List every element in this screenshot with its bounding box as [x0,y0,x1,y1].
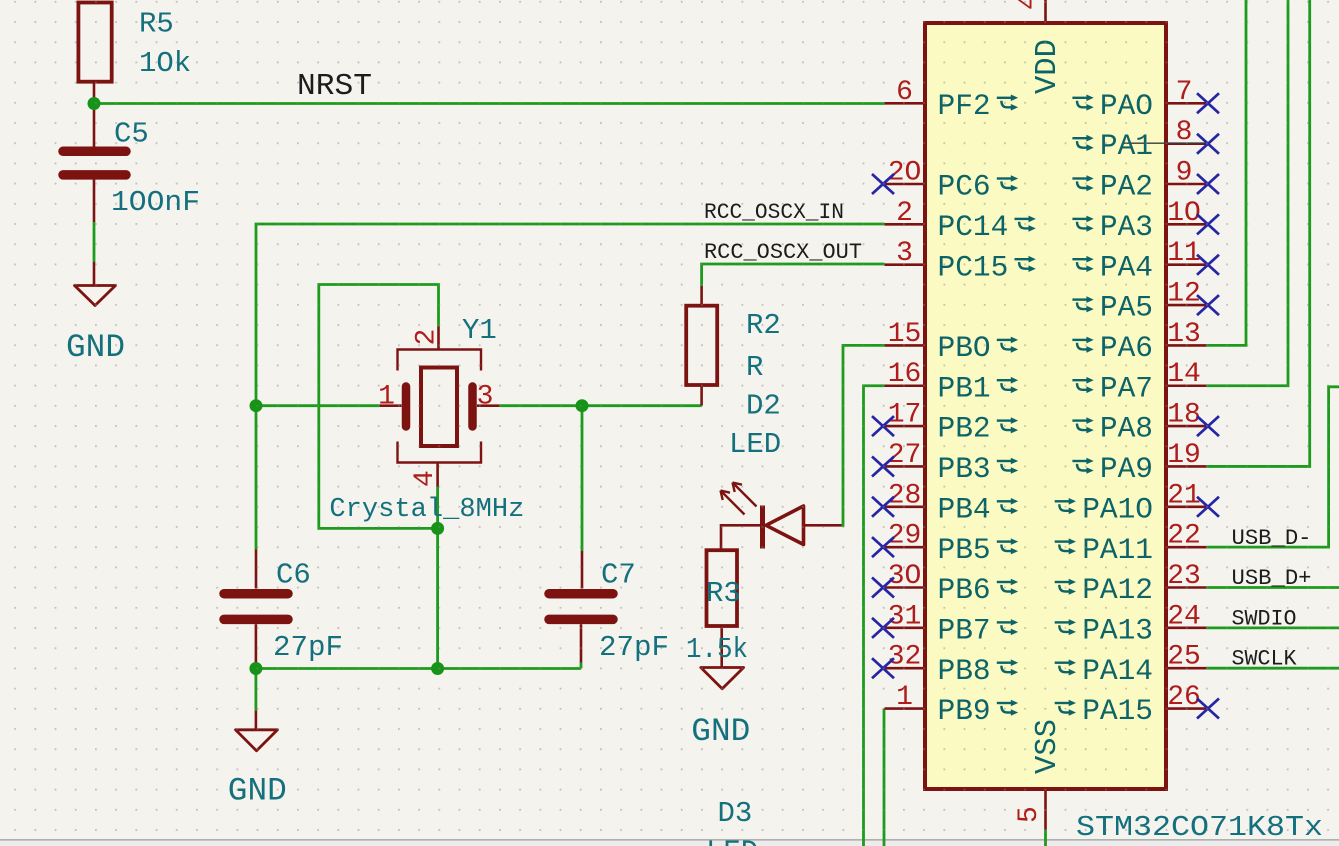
label USB_D- [1232,526,1312,551]
wire SWCLK net [1207,667,1339,670]
junction crystal pin3 / OSC_OUT [576,399,589,412]
wire C7 bottom to rail [580,663,583,669]
U1 pin 16 PB1 (left) [885,359,1019,405]
U1 pin 20 PC6 (left) [872,158,1018,204]
U1 pin 6 PF2 (left) [885,77,1019,123]
U1 pin 19 PA9 (right) [1072,440,1206,486]
label USB_D+ [1232,566,1312,591]
label RCC_OSCX_OUT [704,240,862,265]
Y1 reference label [462,314,497,347]
R3 reference label [706,577,741,610]
junction C6 bottom [249,662,262,675]
R5 reference label [139,8,174,41]
U1 pin 31 PB7 (left) [872,601,1018,647]
U1 pin 29 PB5 (left) [872,521,1018,567]
D3 value LED (cut off) [706,836,758,846]
U1 pin 4 VDD (top) [1014,0,1065,94]
U1 pin 10 PA3 (right) [1072,198,1219,244]
D3 reference label (cut off) [718,797,753,830]
R2 reference label [746,309,781,342]
capacitor C5 [63,151,126,222]
U1 pin 7 PA0 (right) [1072,77,1219,123]
U1 pin 26 PA15 (right) [1055,682,1219,728]
U1 pin 22 PA11 (right) [1055,521,1207,567]
U1 pin 32 PB8 (left) [872,642,1018,688]
U1 pin 13 PA6 (right) [1072,319,1206,365]
wire PA6 up [1207,0,1247,345]
resistor R5 [78,3,111,147]
wire RCC_OSCX_IN net [256,224,885,406]
U1 pin 23 PA12 (right) [1055,561,1207,607]
Y1 pin number 2 (rotated) [412,329,443,346]
U1 pin 8 PA1 (right) [1072,117,1219,163]
wire NRST net [94,102,885,105]
wire junction to C7 top [581,406,584,551]
ground symbol (C6) [236,711,278,751]
ground symbol (R3) [701,668,744,689]
Y1 pin number 1 [378,382,395,413]
wire junction to R2 bottom [582,404,702,407]
U1 pin 27 PB3 (left) [872,440,1018,486]
U1 pin 14 PA7 (right) [1072,359,1206,405]
C6 reference label [276,559,311,592]
junction crystal pin4 / rail [431,662,444,675]
U1 pin 18 PA8 (right) [1072,400,1219,446]
wire RCC_OSCX_OUT net [702,264,885,286]
wire VSS pin 5 down [1044,830,1047,846]
C7 reference label [601,559,636,592]
capacitor C6 [224,550,288,664]
U1 pin 17 PB2 (left) [872,400,1018,446]
GND label (R3) [691,713,750,750]
wire junction to crystal pin1 [256,404,380,407]
wire SWDIO net [1207,626,1339,629]
D2 reference label [746,390,781,423]
U1 pin 1 PB9 (left) [885,682,1019,728]
LED D2 [721,483,842,549]
U1 value STM32C071K8Tx [1076,811,1323,844]
resistor R3 [707,550,738,667]
capacitor C7 [549,551,613,663]
D2 value LED [729,428,781,461]
U1 pin 21 PA10 (right) [1055,480,1219,526]
Y1 pin number 4 (rotated) [410,470,441,487]
label NRST [297,69,372,104]
R5 value 10k [139,47,191,80]
U1 pin 12 PA5 (right) [1072,279,1219,325]
Y1 pin number 3 [477,382,494,413]
U1 pin 30 PB6 (left) [872,561,1018,607]
U1 pin 24 PA13 (right) [1055,601,1207,647]
U1 pin 2 PC14 (left) [885,198,1036,244]
R2 value R [746,351,763,384]
wire PA7 up [1207,0,1289,386]
C5 reference label [114,118,149,151]
wire PB0 to LED anode [841,345,885,525]
wire C6 bottom to rail [254,663,257,711]
wire PB1 down [864,386,885,846]
GND label (C6) [228,773,287,810]
wire USB_D- net [1207,387,1339,547]
wire crystal pin2 loop [319,285,439,529]
crystal Y1 [380,327,500,487]
wire PA9 up [1207,0,1310,466]
label SWDIO [1232,607,1297,632]
R3 value 1.5k [686,633,748,666]
junction at R5/C5/NRST [88,97,101,110]
resistor R2 [686,286,717,406]
op-amp U1 STM32C071K8Tx body [925,23,1166,789]
wire C5 to GND [93,222,96,262]
label RCC_OSCX_IN [704,200,844,225]
U1 pin 11 PA4 (right) [1072,238,1219,284]
wire USB_D+ net [1207,586,1339,589]
C5 value 100nF [111,186,200,219]
GND label (C5) [66,329,125,366]
wire PB9 down [883,709,886,846]
U1 pin 28 PB4 (left) [872,480,1018,526]
C7 value 27pF [599,631,669,664]
junction crystal pin4 / loop [431,522,444,535]
U1 pin 3 PC15 (left) [885,238,1036,284]
wire crystal pin3 to junction [500,404,583,407]
U1 pin 5 VSS (bottom) [1014,719,1065,830]
U1 pin 25 PA14 (right) [1055,642,1207,688]
U1 pin 15 PB0 (left) [885,319,1019,365]
wire crystal pin4 down [436,487,439,669]
U1 pin 9 PA2 (right) [1072,158,1219,204]
C6 value 27pF [273,631,343,664]
junction crystal pin1 / OSC_IN [250,399,263,412]
ground symbol (C5) [75,262,116,306]
wire bottom rail C6-C7 [256,667,581,670]
Y1 value Crystal_8MHz [329,495,524,525]
label SWCLK [1232,647,1298,672]
wire junction to C6 top [255,406,258,550]
